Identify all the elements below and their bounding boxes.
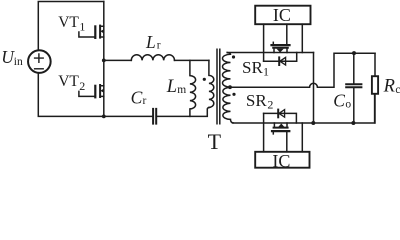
svg-text:m: m bbox=[177, 84, 186, 96]
inductor L1 (Lr) bbox=[131, 55, 174, 61]
svg-text:R: R bbox=[383, 77, 395, 97]
svg-text:L: L bbox=[166, 77, 177, 97]
svg-text:C: C bbox=[131, 87, 143, 107]
node Co top junction bbox=[352, 51, 356, 55]
wire source bottom lead and bottom rail bbox=[38, 73, 152, 116]
transformer T secondary bottom winding bbox=[223, 87, 233, 123]
inductor Lm bbox=[190, 60, 196, 116]
IC U1 block (top) bbox=[255, 6, 310, 25]
wire Lr to primary bbox=[175, 59, 209, 61]
diode D1 (SR1 body diode) bbox=[264, 53, 297, 66]
node Co bottom junction bbox=[351, 121, 355, 125]
capacitor Co bbox=[346, 53, 361, 123]
capacitor Cr bbox=[153, 109, 156, 124]
node secondary bottom polarity dot bbox=[232, 93, 235, 96]
svg-text:2: 2 bbox=[267, 98, 273, 112]
svg-text:VT: VT bbox=[58, 14, 79, 31]
transformer T secondary top winding bbox=[223, 53, 231, 88]
svg-text:VT: VT bbox=[58, 73, 79, 90]
svg-text:C: C bbox=[333, 91, 345, 111]
transformer T core bbox=[217, 49, 220, 124]
svg-text:r: r bbox=[143, 95, 147, 107]
node VT2 source junction bbox=[102, 115, 106, 119]
wire IC1 lead B (gate) bbox=[286, 24, 288, 44]
node VT midpoint junction bbox=[102, 59, 106, 63]
wire top rail from source to VT1 drain bbox=[38, 2, 104, 50]
transistor SR2 bbox=[272, 123, 289, 134]
wire SR1 main (secondary top lead to output node) bbox=[227, 52, 313, 54]
svg-text:SR: SR bbox=[246, 91, 267, 110]
transistor VT1 bbox=[79, 26, 104, 38]
wire output vertical SR1 to bottom rail bbox=[313, 53, 315, 124]
svg-text:1: 1 bbox=[79, 19, 85, 33]
svg-text:IC: IC bbox=[273, 5, 291, 25]
node center tap junction bbox=[228, 85, 232, 89]
svg-text:2: 2 bbox=[79, 79, 85, 93]
wire half-bridge vertical (VT1 drain to VT2 source) bbox=[103, 2, 105, 117]
wire center tap with hopover bbox=[231, 53, 376, 87]
wire Cr to primary bottom bbox=[157, 108, 209, 117]
wire IC2 lead C (source) bbox=[301, 123, 303, 152]
transformer T primary winding bbox=[209, 60, 214, 107]
wire bottom output rail bbox=[233, 94, 375, 123]
wire IC1 lead A (drain sense) bbox=[263, 24, 265, 61]
svg-text:T: T bbox=[208, 129, 222, 154]
node SR join on bottom rail bbox=[311, 121, 315, 125]
svg-text:r: r bbox=[157, 40, 161, 52]
svg-text:in: in bbox=[14, 56, 23, 68]
wire IC2 lead B (gate) bbox=[286, 131, 288, 152]
transistor SR1 bbox=[272, 42, 290, 52]
IC U2 block (bottom) bbox=[255, 152, 309, 168]
node secondary top polarity dot bbox=[232, 55, 235, 58]
wire IC2 lead A (drain sense) bbox=[263, 113, 265, 151]
svg-text:SR: SR bbox=[242, 58, 263, 77]
resistor Rc bbox=[372, 53, 378, 123]
wire IC1 lead C (source) bbox=[301, 24, 303, 52]
svg-text:IC: IC bbox=[272, 151, 290, 170]
svg-text:1: 1 bbox=[263, 65, 269, 79]
diode D2 (SR2 body diode) bbox=[264, 110, 297, 123]
voltage source U_in bbox=[28, 50, 51, 73]
svg-text:L: L bbox=[145, 32, 156, 52]
transistor VT2 bbox=[79, 85, 104, 97]
svg-text:c: c bbox=[395, 84, 400, 96]
svg-text:o: o bbox=[345, 98, 351, 110]
node primary polarity dot bbox=[203, 78, 206, 81]
wire midpoint to Lr bbox=[104, 59, 132, 61]
